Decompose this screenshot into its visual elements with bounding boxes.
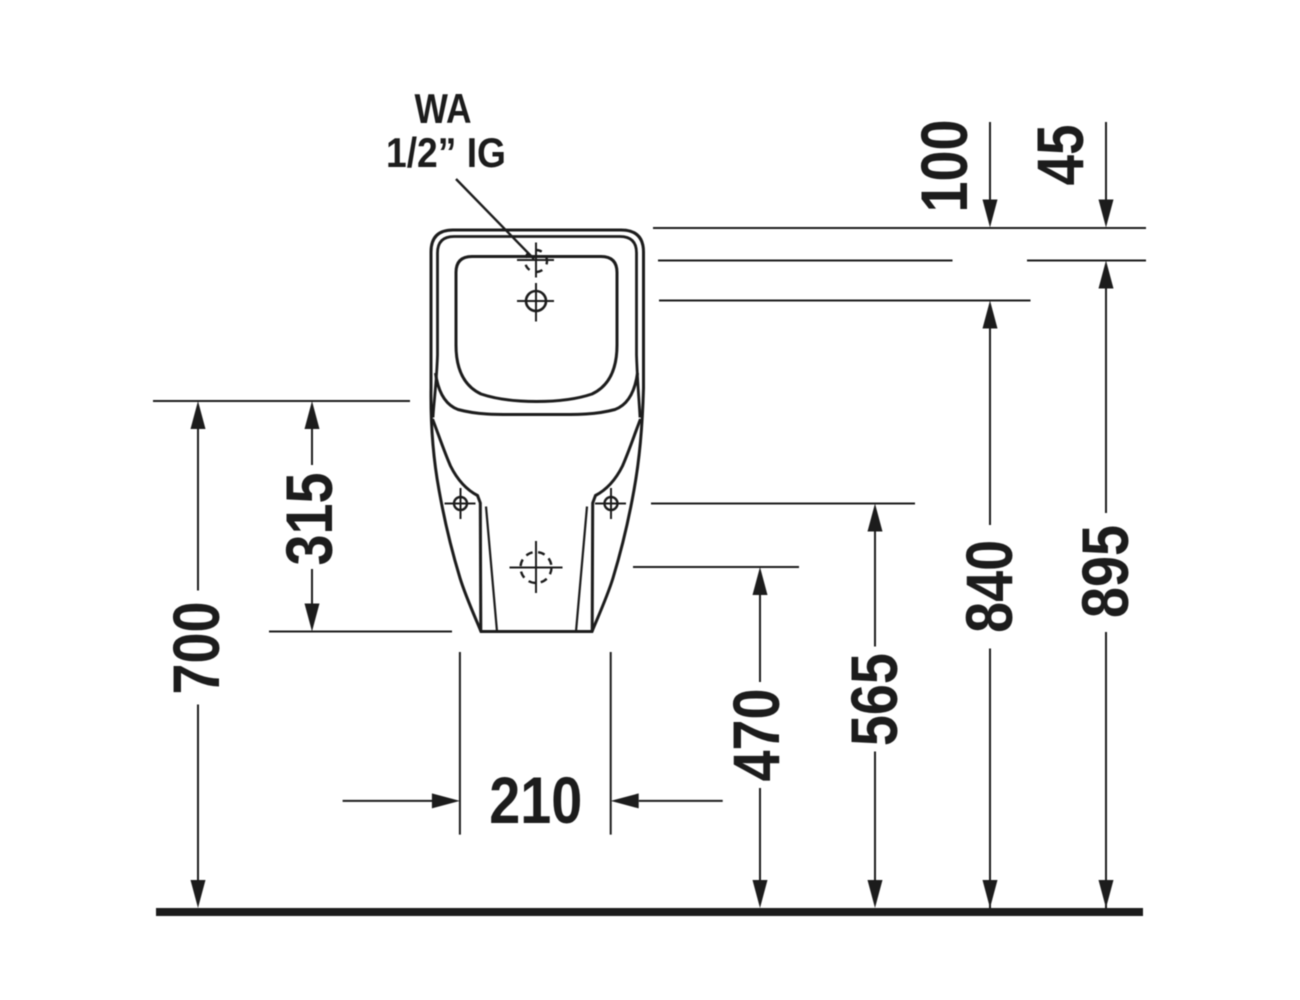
leader line WA — [456, 179, 534, 259]
left shoulder curve — [433, 419, 481, 632]
drain hole circle — [526, 291, 546, 311]
svg-text:895: 895 — [1068, 525, 1142, 618]
dimension 895 arrowhead up — [1099, 261, 1114, 289]
dimension 895 shaft — [1105, 289, 1107, 909]
dimension 565 arrowhead up — [868, 504, 883, 532]
dimension 565 shaft — [874, 532, 876, 881]
dimension 840 shaft — [989, 329, 991, 909]
right drain shroud line — [576, 507, 587, 632]
dimension 45 arrowhead — [1099, 200, 1114, 228]
dimension 315 arrowhead down — [305, 604, 320, 632]
svg-text:210: 210 — [489, 763, 582, 837]
bottom outlet crosshair — [510, 541, 563, 593]
dimension 210 extension line right — [610, 652, 612, 835]
dimension 315 arrowhead up — [305, 401, 320, 429]
left fixing hole — [454, 497, 467, 510]
svg-text:700: 700 — [159, 602, 233, 695]
ground line — [156, 908, 1143, 916]
svg-text:1/2” IG: 1/2” IG — [386, 129, 506, 176]
outer bowl curve — [436, 373, 638, 415]
basin opening — [456, 257, 617, 402]
dimension 840 arrowhead down — [983, 880, 998, 908]
dimension 700 shaft — [197, 429, 199, 880]
dimension 470 arrowhead down — [753, 880, 768, 908]
svg-text:WA: WA — [415, 85, 472, 132]
dimension 210 left arrow shaft — [343, 800, 432, 802]
inlet/drain vertical crosshair — [535, 243, 537, 322]
dimension 210 right arrow shaft — [639, 800, 723, 802]
urinal inner rim line — [433, 237, 640, 418]
dimension 100 arrowhead — [983, 200, 998, 228]
bottom outlet dashed circle — [521, 552, 552, 583]
reference line bottom of urinal (315) — [269, 631, 452, 633]
inlet horizontal crosshair — [517, 259, 554, 261]
dimension 470 arrowhead up — [753, 567, 768, 595]
right fixing hole crosshair — [595, 488, 626, 519]
reference line 565 — [651, 503, 915, 505]
reference line 100 below (datum C) — [659, 300, 1031, 302]
right fixing hole — [605, 497, 618, 510]
urinal outer body silhouette — [431, 230, 644, 632]
dimension 895 arrowhead down — [1099, 880, 1114, 908]
svg-text:315: 315 — [272, 473, 346, 566]
dimension 840 arrowhead up — [983, 301, 998, 329]
left drain shroud line — [486, 507, 497, 632]
svg-text:470: 470 — [719, 689, 793, 782]
dimension 470 shaft — [759, 595, 761, 880]
svg-text:565: 565 — [837, 653, 911, 746]
dimension 210 right arrowhead — [611, 793, 639, 808]
water inlet dashed circle — [525, 250, 547, 272]
svg-text:100: 100 — [907, 120, 981, 213]
dimension 565 arrowhead down — [868, 880, 883, 908]
dimension 100 shaft — [989, 122, 991, 200]
dimension 315 shaft — [311, 429, 313, 604]
dimension 210 extension line left — [459, 652, 461, 835]
svg-text:840: 840 — [952, 540, 1026, 633]
svg-text:45: 45 — [1023, 125, 1097, 186]
dimension 45 shaft — [1105, 122, 1107, 200]
reference line top (datum A) — [653, 227, 1146, 229]
left fixing hole crosshair — [445, 488, 476, 519]
dimension 700 arrowhead up — [191, 401, 206, 429]
drain horizontal crosshair — [517, 300, 554, 302]
dimension 700 arrowhead down — [191, 880, 206, 908]
reference line 45 below (datum B) — [658, 260, 1146, 262]
dimension 210 left arrowhead — [432, 793, 460, 808]
right shoulder curve — [592, 419, 640, 632]
reference line 470 — [633, 566, 799, 568]
reference line rim left (700/315) — [153, 400, 410, 402]
